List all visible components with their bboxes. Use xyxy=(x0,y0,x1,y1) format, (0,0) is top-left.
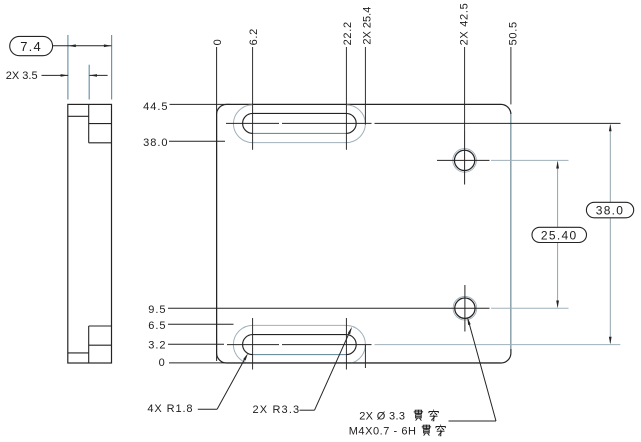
leader 4X R1.8 horizontal xyxy=(198,408,217,410)
bottom slot centerline seg3 xyxy=(375,344,621,346)
arrow 7.4 right xyxy=(104,44,112,47)
extension line right of side view xyxy=(111,35,113,100)
svg-text:2X 25.4: 2X 25.4 xyxy=(361,7,373,45)
leader note horizontal xyxy=(449,420,497,422)
side view top-left step line xyxy=(68,115,89,117)
top slot outer profile bottom edge xyxy=(253,142,347,144)
balloon dimension 7.4 xyxy=(10,36,53,55)
dim line 38.0 upper xyxy=(609,125,611,203)
svg-text:9.5: 9.5 xyxy=(148,304,166,316)
top slot centerline seg3 xyxy=(375,122,621,124)
svg-text:44.5: 44.5 xyxy=(143,101,168,113)
line 38.0 xyxy=(169,140,225,142)
svg-text:4X R1.8: 4X R1.8 xyxy=(147,403,193,415)
svg-text:2X 3.5: 2X 3.5 xyxy=(6,70,38,82)
svg-text:6.5: 6.5 xyxy=(148,320,166,332)
dim line 25.40 lower xyxy=(557,243,559,307)
balloon 25.40 xyxy=(532,227,587,242)
upper hole thread circle xyxy=(453,149,477,173)
top slot outer profile left arc xyxy=(233,105,252,143)
side view top step vertical xyxy=(88,104,90,142)
arrow 2X 3.5 second xyxy=(89,74,97,77)
bottom slot outer profile top edge xyxy=(253,324,347,326)
arrow 7.4 left xyxy=(68,44,76,47)
dimension line 7.4 xyxy=(53,45,112,47)
leader 2X R3.3 horizontal xyxy=(300,409,315,411)
svg-text:3.2: 3.2 xyxy=(148,340,166,352)
extension line 22.2 top xyxy=(345,47,347,150)
line 44.5 to plate top xyxy=(170,103,231,105)
extension line 2X 25.4 top xyxy=(364,47,366,125)
balloon 38.0 xyxy=(586,202,633,218)
bottom slot inner top edge xyxy=(253,334,347,336)
bottom slot outer right tick xyxy=(364,345,366,368)
top slot inner bottom edge xyxy=(253,132,347,134)
side view bottom-right step line 1 xyxy=(89,325,112,327)
extension line left of side view xyxy=(67,35,69,100)
arrow 2X 3.5 first xyxy=(61,74,69,77)
plate outline front view xyxy=(217,104,511,363)
upper hole horizontal centerline xyxy=(437,159,490,161)
arrow 25.40 up xyxy=(556,161,559,169)
svg-text:38.0: 38.0 xyxy=(596,204,625,218)
note line1 CJK glyphs xyxy=(414,410,423,421)
extension line middle of side view xyxy=(88,65,90,100)
line 3.2 xyxy=(168,343,224,345)
side view bottom step vertical xyxy=(88,326,90,363)
arrow 38.0 up xyxy=(609,124,612,132)
extension line 0 / plate left xyxy=(216,47,218,361)
leader 2X 3.5 xyxy=(42,74,69,76)
line 6.5 xyxy=(168,323,234,325)
svg-text:2X 42.5: 2X 42.5 xyxy=(459,3,471,46)
svg-text:0: 0 xyxy=(212,39,224,46)
extension line 6.2 xyxy=(252,47,254,150)
arrow 2X R3.3 xyxy=(348,327,352,335)
upper hole vertical centerline xyxy=(464,131,466,185)
dim line 25.40 upper xyxy=(557,162,559,228)
side view outline xyxy=(68,104,112,363)
svg-text:0: 0 xyxy=(159,357,166,369)
side view top-right step line 1 xyxy=(89,123,112,125)
bottom slot inner right arc xyxy=(346,335,356,355)
bottom slot right arc tick xyxy=(345,318,347,370)
top slot outer profile right arc xyxy=(346,105,365,143)
line 9.5 extension right xyxy=(491,307,569,309)
line 0 / plate bottom xyxy=(169,362,500,364)
svg-text:2X Ø 3.3: 2X Ø 3.3 xyxy=(359,411,405,423)
bottom slot outer profile right arc xyxy=(346,325,365,363)
leader note diagonal xyxy=(468,320,496,421)
leader 4X R1.8 diagonal xyxy=(217,356,247,410)
svg-text:50.5: 50.5 xyxy=(507,21,519,45)
top slot inner top edge xyxy=(253,112,347,114)
side view bottom-left step line xyxy=(68,352,89,354)
svg-text:38.0: 38.0 xyxy=(143,137,168,149)
line 9.5 through lower hole xyxy=(168,307,490,309)
arrow 38.0 down xyxy=(609,337,612,345)
svg-text:2X R3.3: 2X R3.3 xyxy=(253,404,301,416)
svg-text:7.4: 7.4 xyxy=(20,39,42,54)
tail line 2X 3.5 xyxy=(89,74,107,76)
svg-text:25.40: 25.40 xyxy=(541,228,578,242)
lower hole vertical centerline xyxy=(464,285,466,332)
side view top-right step line 2 xyxy=(89,142,112,144)
arrow note to lower hole xyxy=(467,317,470,325)
top slot centerline seg2 xyxy=(282,122,372,124)
top slot inner left arc xyxy=(243,113,253,133)
upper hole Ø3.3 xyxy=(454,150,474,170)
side view bottom-right step line 2 xyxy=(89,344,112,346)
lower hole Ø3.3 xyxy=(455,298,475,318)
top slot centerline seg1 xyxy=(226,122,279,124)
top slot inner right arc xyxy=(346,113,356,133)
arrow 4X R1.8 xyxy=(243,353,248,360)
bottom slot centerline seg1 xyxy=(227,344,279,346)
svg-text:M4X0.7 - 6H: M4X0.7 - 6H xyxy=(349,425,417,437)
bottom slot outer profile left arc xyxy=(233,325,252,363)
dim line 38.0 lower xyxy=(609,218,611,343)
lower hole thread circle xyxy=(453,296,477,320)
extension line 50.5 xyxy=(510,47,512,104)
arrow 25.40 down xyxy=(556,301,559,309)
leader 2X R3.3 diagonal xyxy=(315,329,351,410)
bottom slot left arc tick xyxy=(252,318,254,370)
extension line 2X 42.5 xyxy=(464,47,466,131)
bottom slot centerline seg2 xyxy=(282,344,372,346)
svg-text:22.2: 22.2 xyxy=(342,21,354,45)
note line2 CJK glyphs xyxy=(422,425,431,436)
svg-text:6.2: 6.2 xyxy=(248,28,260,45)
bottom slot inner left arc xyxy=(243,335,253,355)
bottom slot inner bottom edge xyxy=(253,354,347,356)
upper hole centerline extension xyxy=(491,159,569,161)
plate right edge light overlay xyxy=(510,114,512,349)
